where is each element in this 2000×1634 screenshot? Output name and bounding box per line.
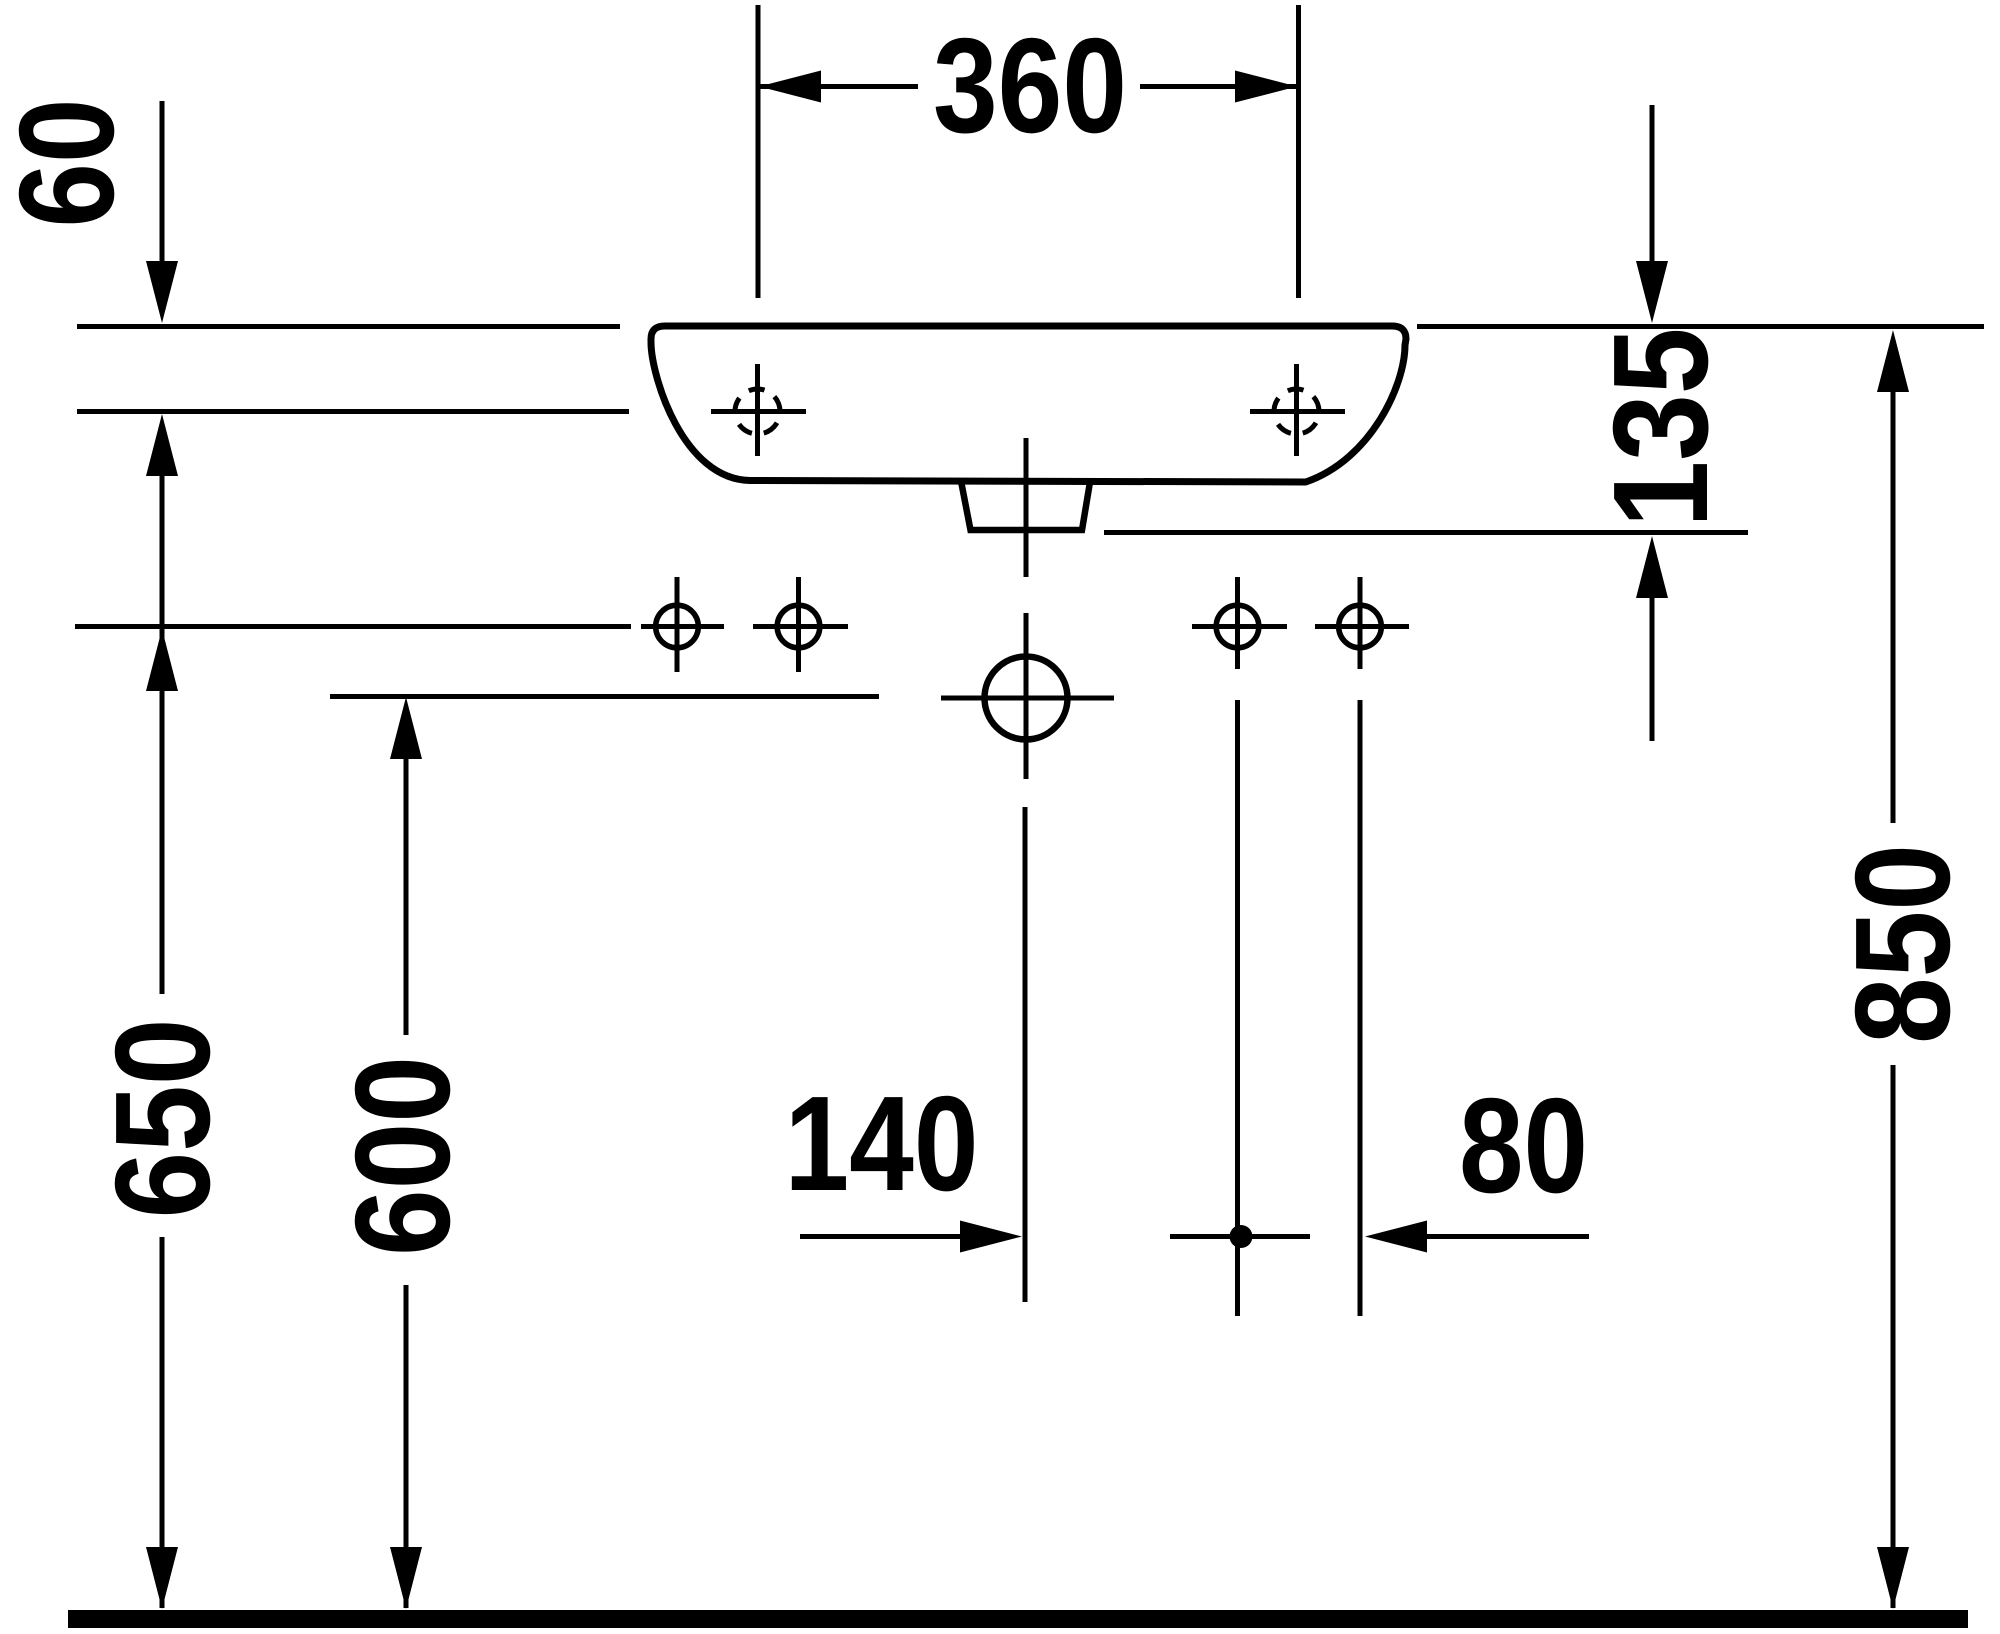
dimension 600 bottom arrowhead	[390, 1547, 422, 1609]
mounting hole 3 cross horizontal	[1192, 624, 1287, 629]
tap hole left dashed circle	[726, 380, 788, 442]
mounting hole 3 cross vertical	[1235, 577, 1240, 669]
drain height line (600 reference)	[330, 694, 879, 699]
drain hole circle	[985, 657, 1068, 740]
dimension 360 extension line right	[1296, 5, 1301, 298]
dimension 650 shaft upper	[160, 472, 165, 994]
reference dot line	[1170, 1234, 1310, 1239]
dimension 135 upper shaft	[1650, 105, 1655, 261]
dimension 650 top arrowhead	[146, 629, 178, 691]
tap hole cross right: horizontal	[1250, 409, 1345, 414]
svg-text:60: 60	[0, 99, 142, 228]
dimension 360 line left segment	[760, 84, 918, 89]
hole column 3 extension line down	[1235, 700, 1240, 1316]
dimension 600 upper shaft	[404, 755, 409, 1035]
dimension 135 upper arrowhead	[1636, 261, 1668, 323]
reference dot	[1230, 1225, 1253, 1248]
mounting hole level line	[75, 624, 631, 629]
mounting hole 3 circle	[1216, 605, 1259, 648]
dimension 360 extension line left	[756, 5, 761, 298]
dimension 600 lower shaft	[404, 1285, 409, 1608]
svg-text:140: 140	[785, 1068, 979, 1219]
dimension 60 lower arrowhead	[146, 414, 178, 476]
dimension 360 line right segment	[1140, 84, 1297, 89]
svg-text:80: 80	[1459, 1070, 1588, 1221]
dimension 360 left arrowhead	[759, 71, 821, 103]
svg-text:850: 850	[1827, 844, 1978, 1044]
dimension 80 arrowhead	[1365, 1221, 1427, 1253]
overflow level line (135 reference)	[1104, 530, 1748, 535]
drain centerline through circle	[1024, 613, 1029, 779]
drain center extension line down	[1023, 807, 1028, 1302]
dimension 850 lower shaft	[1891, 1065, 1896, 1608]
washbasin outline	[651, 326, 1406, 482]
dimension 135 lower shaft	[1650, 596, 1655, 741]
mounting hole 4 circle	[1339, 605, 1382, 648]
svg-text:135: 135	[1585, 328, 1736, 528]
mounting hole 1 cross vertical	[675, 577, 680, 672]
dimension 850 bottom arrowhead	[1877, 1547, 1909, 1609]
dimension 140 line	[800, 1234, 965, 1239]
mounting hole 4 cross horizontal	[1315, 624, 1409, 629]
dimension 850 upper shaft	[1891, 390, 1896, 823]
tap hole right dashed circle	[1265, 380, 1327, 442]
drain hole cross horizontal	[941, 696, 1114, 701]
drain spout trapezoid	[961, 481, 1090, 530]
dimension 650 bottom arrowhead	[146, 1547, 178, 1609]
svg-text:650: 650	[87, 1019, 238, 1219]
tap hole cross left: horizontal	[711, 409, 806, 414]
dimension 850 top arrowhead	[1877, 330, 1909, 392]
hole column 4 extension line down	[1358, 700, 1363, 1316]
mounting hole 1 cross horizontal	[641, 624, 724, 629]
svg-text:600: 600	[327, 1056, 478, 1256]
dimension 135 lower arrowhead	[1636, 536, 1668, 598]
mounting hole 2 cross vertical	[796, 577, 801, 672]
mounting hole 2 circle	[777, 605, 820, 648]
svg-text:360: 360	[933, 10, 1127, 161]
mounting hole 4 cross vertical	[1358, 577, 1363, 669]
mounting hole 2 cross horizontal	[753, 624, 848, 629]
dimension 60 upper arrowhead	[146, 261, 178, 323]
dimension 650 shaft lower	[160, 1237, 165, 1608]
dimension 600 top arrowhead	[390, 697, 422, 759]
wall line top left	[77, 324, 620, 329]
mounting hole 1 circle	[656, 605, 699, 648]
tap hole cross left: vertical	[755, 364, 760, 456]
dimension 140 arrowhead	[960, 1221, 1022, 1253]
dimension 360 right arrowhead	[1235, 71, 1297, 103]
dimension 80 line	[1425, 1234, 1589, 1239]
tap hole cross right: vertical	[1294, 364, 1299, 456]
floor line	[68, 1610, 1968, 1628]
wall line top right	[1417, 324, 1984, 329]
drain centerline upper segment	[1024, 438, 1029, 577]
dimension 60 line upper segment	[160, 101, 165, 261]
tap hole level line left	[77, 409, 629, 414]
